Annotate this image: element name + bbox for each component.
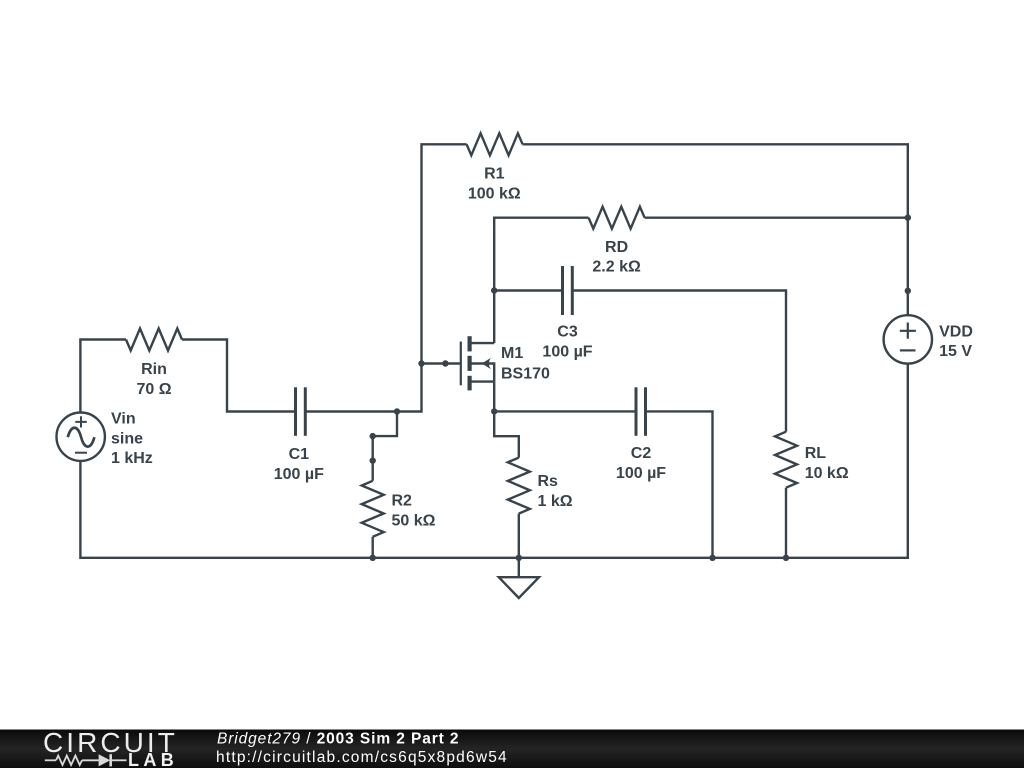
resistor RD xyxy=(589,207,645,229)
label R1 value xyxy=(468,166,521,203)
junction: R2 bottom on ground rail xyxy=(370,555,376,561)
capacitor C2 xyxy=(636,387,646,436)
wire source node to C2 xyxy=(494,410,636,412)
resistor Rs xyxy=(508,458,530,514)
junction: gate node at left rail xyxy=(418,360,424,366)
label C3 value xyxy=(542,324,592,361)
label RD value xyxy=(592,239,641,276)
svg-text:C3: C3 xyxy=(557,324,578,341)
svg-text:M1: M1 xyxy=(501,345,523,362)
svg-text:100 µF: 100 µF xyxy=(616,465,666,482)
svg-text:10 kΩ: 10 kΩ xyxy=(805,465,849,482)
wire C2 right segment down to rail xyxy=(646,411,713,557)
svg-text:RD: RD xyxy=(605,239,628,256)
junction: Rs bottom / ground symbol on ground rail xyxy=(516,555,522,561)
label Rs value xyxy=(538,473,573,510)
junction: VDD rail / RD wire xyxy=(905,215,911,221)
wire gate connection xyxy=(422,362,461,364)
resistor R2 xyxy=(362,481,384,537)
wire C3 right segment to RL corner xyxy=(572,291,786,432)
resistor R1 xyxy=(467,133,523,155)
wire C3 left segment xyxy=(494,289,562,291)
svg-text:LAB: LAB xyxy=(128,750,178,768)
svg-text:Vin: Vin xyxy=(111,411,136,428)
capacitor C1 xyxy=(296,387,306,436)
svg-text:100 µF: 100 µF xyxy=(542,343,592,360)
svg-text:2.2 kΩ: 2.2 kΩ xyxy=(592,259,641,276)
svg-text:15 V: 15 V xyxy=(939,343,972,360)
svg-text:sine: sine xyxy=(111,430,143,447)
svg-text:VDD: VDD xyxy=(939,323,973,340)
resistor Rin xyxy=(126,329,182,351)
wire Rin left lead and Vin top lead xyxy=(80,340,126,413)
label C1 value xyxy=(274,446,324,483)
label Rin value xyxy=(136,361,171,398)
label R2 value xyxy=(392,493,436,530)
label RL value xyxy=(805,445,849,482)
svg-text:50 kΩ: 50 kΩ xyxy=(392,512,436,529)
voltage source Vin xyxy=(56,413,104,461)
svg-text:Rs: Rs xyxy=(538,473,559,490)
junction: gate wire mid node xyxy=(442,360,448,366)
wire RD right segment xyxy=(645,216,908,218)
wire R2 bottom lead xyxy=(372,537,374,558)
junction: VDD positive terminal xyxy=(905,288,911,294)
junction: RL bottom on ground rail xyxy=(783,555,789,561)
svg-text:Rin: Rin xyxy=(141,361,167,378)
wire R1 top rail left segment and left gate rail xyxy=(305,144,466,411)
label M1 value xyxy=(501,345,550,382)
wire M1 source down to node xyxy=(493,382,495,412)
label VDD value xyxy=(939,323,973,360)
transistor M1 xyxy=(461,336,494,390)
svg-text:Bridget279 / 2003 Sim 2 Part 2: Bridget279 / 2003 Sim 2 Part 2 xyxy=(217,731,459,748)
junction: R2 top terminal xyxy=(370,457,376,463)
wire RL bottom lead xyxy=(785,488,787,558)
wire Rs bottom lead xyxy=(518,514,520,558)
label Vin value xyxy=(111,411,153,468)
ground symbol xyxy=(499,558,539,598)
logo resistor-diode symbol xyxy=(45,754,127,766)
wire RD left segment and drain rail xyxy=(494,218,588,343)
wire Vin bottom lead, bottom ground rail, VDD bottom lead xyxy=(80,364,907,558)
footer bar xyxy=(0,730,1024,768)
svg-text:100 µF: 100 µF xyxy=(274,466,324,483)
svg-text:RL: RL xyxy=(805,445,827,462)
capacitor C3 xyxy=(563,266,573,315)
svg-text:100 kΩ: 100 kΩ xyxy=(468,185,521,202)
junction: source node (M1 source / C2 / Rs) xyxy=(491,408,497,414)
svg-text:R1: R1 xyxy=(484,166,505,183)
svg-text:70 Ω: 70 Ω xyxy=(136,381,171,398)
svg-text:BS170: BS170 xyxy=(501,366,550,383)
svg-text:R2: R2 xyxy=(392,493,413,510)
svg-text:1 kΩ: 1 kΩ xyxy=(538,493,573,510)
wire Rin right segment down to C1 level xyxy=(182,340,296,412)
junction: drain node (RD / C3) xyxy=(491,287,497,293)
junction: C1 wire / R2 branch xyxy=(394,408,400,414)
svg-text:http://circuitlab.com/cs6q5x8p: http://circuitlab.com/cs6q5x8pd6w54 xyxy=(216,749,508,766)
junction: R2 branch corner node xyxy=(370,433,376,439)
svg-text:C1: C1 xyxy=(289,446,310,463)
svg-text:1 kHz: 1 kHz xyxy=(111,450,153,467)
svg-text:C2: C2 xyxy=(631,445,652,462)
voltage source VDD xyxy=(884,315,932,363)
label C2 value xyxy=(616,445,666,482)
junction: C2 branch on ground rail xyxy=(709,555,715,561)
wire R2 branch from C1 wire xyxy=(373,412,397,481)
wire Rs jog from source node xyxy=(494,411,519,457)
wire R1 top rail right segment and right VDD rail xyxy=(523,144,908,315)
resistor RL xyxy=(775,432,797,488)
